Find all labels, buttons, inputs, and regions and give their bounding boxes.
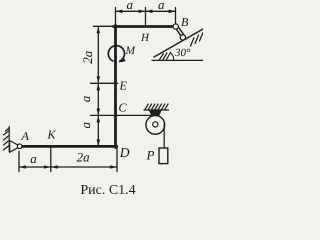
- roller on incline: [180, 35, 185, 40]
- pin A: [17, 144, 22, 149]
- arrowheads bottom dim a (A-K): [19, 165, 26, 169]
- incline hatching (near vertex): [160, 54, 164, 60]
- svg-text:A: A: [21, 129, 30, 143]
- wall hatching: [4, 131, 10, 136]
- svg-text:a: a: [158, 0, 165, 12]
- svg-text:D: D: [119, 145, 130, 160]
- svg-text:C: C: [119, 100, 128, 114]
- top dim extension at B: [175, 8, 177, 24]
- bottom bar AKD: [22, 145, 117, 148]
- bottom dim extension at K: [50, 148, 52, 171]
- vertical bar ECD (corner to D): [114, 25, 117, 147]
- svg-text:B: B: [181, 15, 189, 29]
- svg-text:a: a: [127, 0, 134, 12]
- svg-text:a: a: [30, 151, 37, 166]
- svg-text:K: K: [47, 128, 57, 142]
- ceiling hatching: [145, 104, 148, 109]
- top dim line a,a: [116, 10, 176, 12]
- svg-text:a: a: [78, 122, 93, 129]
- arrowheads left dim a (C-D): [97, 116, 101, 123]
- incline surface: [154, 29, 203, 57]
- cable from pulley down to weight: [163, 124, 165, 148]
- incline hatching (right): [191, 38, 195, 46]
- cable from C to pulley: [91, 114, 153, 116]
- moment M arrowhead: [119, 57, 126, 63]
- pulley axle: [153, 122, 158, 127]
- pulley wheel: [146, 116, 165, 135]
- bottom dim extension at A: [18, 152, 20, 172]
- pulley bracket: [150, 110, 162, 122]
- svg-text:E: E: [119, 79, 128, 93]
- ground reference line: [152, 59, 203, 61]
- bottom dim line a,2a: [19, 166, 117, 168]
- bottom dim extension at D: [116, 148, 118, 171]
- svg-text:M: M: [125, 45, 137, 57]
- top dim extension at H: [145, 8, 147, 26]
- support link at B: [176, 29, 181, 36]
- svg-text:2a: 2a: [80, 50, 95, 64]
- left dim extension at E: [91, 82, 118, 84]
- arrowheads top dim a (corner-H): [116, 10, 123, 14]
- svg-text:30°: 30°: [174, 47, 191, 59]
- arrowheads left dim a (E-C): [97, 84, 101, 91]
- ceiling line over pulley: [144, 109, 169, 111]
- weight P box: [159, 148, 168, 164]
- top dim extension at corner: [115, 8, 117, 26]
- support triangle at A: [10, 141, 18, 153]
- arrowheads top dim a (H-B): [146, 10, 153, 14]
- left dim extension at corner: [94, 25, 114, 27]
- arrowheads bottom dim 2a (K-D): [51, 165, 58, 169]
- svg-text:a: a: [78, 95, 93, 102]
- caption: [7, 183, 210, 199]
- svg-text:H: H: [140, 32, 150, 44]
- moment M arc: [108, 46, 124, 61]
- left dim line 2a,a,a: [97, 26, 99, 146]
- wall line at A: [8, 127, 10, 152]
- arrowheads left dim 2a (corner-E): [97, 27, 101, 34]
- svg-text:2a: 2a: [77, 149, 91, 164]
- svg-text:P: P: [146, 148, 155, 163]
- top bar HB (corner to B): [114, 25, 175, 28]
- pin B: [173, 24, 178, 29]
- angle arc 30 deg: [171, 53, 174, 61]
